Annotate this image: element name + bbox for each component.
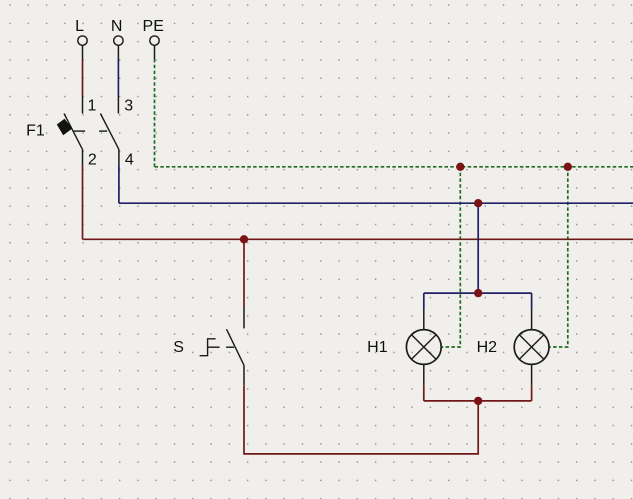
F1 breaker latch square <box>57 119 73 136</box>
wire lamp bottom bridge (dark red) <box>424 400 532 402</box>
wire S to bottom rail (dark red) <box>244 385 478 454</box>
svg-text:4: 4 <box>125 151 134 168</box>
S blade <box>227 329 245 365</box>
svg-text:S: S <box>173 339 184 356</box>
F1 pin 4 stub <box>118 149 120 165</box>
svg-text:H1: H1 <box>367 339 388 356</box>
wire N terminal pin (black stub) <box>117 45 119 59</box>
S actuator link dashes <box>208 346 220 348</box>
F1 left blade <box>64 114 83 150</box>
terminal N <box>111 18 123 45</box>
svg-text:2: 2 <box>88 151 97 168</box>
wire bridge to H1 top (blue) <box>423 293 425 309</box>
node lamp bottom bridge junction <box>474 397 482 405</box>
F1 pin 3 stub <box>117 95 119 113</box>
svg-text:3: 3 <box>124 98 133 115</box>
svg-text:F1: F1 <box>26 123 45 140</box>
wire H1 bottom to bridge (dark red) <box>423 385 425 401</box>
node lamp top bridge junction <box>474 289 482 297</box>
F1 pin 2 stub <box>82 149 84 165</box>
lamp H1 <box>367 310 441 386</box>
wire bridge to H2 top (blue) <box>531 293 533 309</box>
H2 bottom pin stub <box>531 364 533 385</box>
wire PE vertical (green dashed) <box>154 59 156 167</box>
wire PE drop to H2 (green dashed) <box>549 167 568 347</box>
wire L rail horizontal (dark red) <box>83 238 633 240</box>
wire F1 pin2 down to L rail (dark red) <box>82 165 84 239</box>
svg-text:PE: PE <box>143 18 164 35</box>
wire PE rail horizontal (green dashed) <box>155 166 633 168</box>
lamp H2 <box>477 310 549 386</box>
wire N rail drop to lamp bridge (blue) <box>477 203 479 293</box>
svg-text:1: 1 <box>88 98 97 115</box>
svg-text:N: N <box>111 18 123 35</box>
node L rail junction <box>240 235 248 243</box>
H2 top pin stub <box>531 310 533 330</box>
F1 right blade <box>100 114 119 150</box>
wire L terminal pin (black stub) <box>82 45 84 59</box>
wire N rail horizontal (blue) <box>119 202 633 204</box>
wire N to F1 pin 3 (neutral, blue) <box>117 59 119 95</box>
node PE-H2 junction <box>564 163 572 171</box>
terminal L <box>75 18 87 45</box>
wire PE drop to H1 (green dashed) <box>441 167 460 347</box>
node N rail junction <box>474 199 482 207</box>
breaker F1 <box>26 95 134 168</box>
wire L to F1 pin 1 (phase, dark red) <box>82 59 84 95</box>
S bottom pin stub <box>243 365 245 385</box>
wire red rail drop to S (dark red) <box>243 239 245 306</box>
F1 pin 1 stub <box>82 95 84 113</box>
S actuator lever <box>200 339 216 356</box>
wire H2 bottom to bridge (dark red) <box>531 385 533 401</box>
wire F1 pin4 down to N rail (blue) <box>118 165 120 203</box>
H1 top pin stub <box>423 310 425 330</box>
svg-text:L: L <box>75 18 84 35</box>
terminal PE <box>143 18 164 45</box>
node PE-H1 junction <box>456 163 464 171</box>
S top pin stub <box>243 306 245 328</box>
svg-text:H2: H2 <box>477 339 498 356</box>
F1 mechanical linkage dashes <box>74 130 86 132</box>
switch S <box>173 239 244 385</box>
H1 bottom pin stub <box>423 364 425 385</box>
wire lamp top bridge (blue) <box>424 292 532 294</box>
wire PE terminal pin (black stub) <box>154 45 156 59</box>
